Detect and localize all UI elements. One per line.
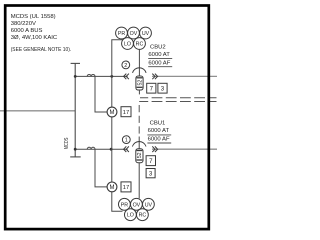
svg-text:6000 AT: 6000 AT (148, 52, 170, 58)
svg-text:M: M (110, 110, 115, 116)
svg-text:6000 AT: 6000 AT (148, 128, 170, 134)
svg-text:OV: OV (133, 202, 141, 208)
svg-text:CBU1: CBU1 (150, 120, 166, 126)
svg-text:2: 2 (124, 63, 127, 69)
svg-text:LO: LO (127, 213, 134, 219)
svg-text:1: 1 (125, 138, 128, 144)
svg-text:PR: PR (118, 31, 126, 37)
svg-text:CBU2: CBU2 (150, 44, 166, 50)
svg-text:52: 52 (137, 80, 143, 86)
svg-text:17: 17 (123, 185, 129, 191)
svg-text:OV: OV (130, 31, 138, 37)
svg-text:3Ø, 4W,100 KAIC: 3Ø, 4W,100 KAIC (11, 35, 58, 41)
svg-text:17: 17 (123, 110, 129, 116)
svg-text:(SEE GENERAL NOTE 10).: (SEE GENERAL NOTE 10). (11, 47, 72, 53)
svg-text:MCDS (UL 1558): MCDS (UL 1558) (11, 14, 56, 20)
svg-text:M: M (110, 185, 115, 191)
svg-text:UV: UV (142, 31, 150, 37)
svg-text:6000 AF: 6000 AF (148, 60, 170, 66)
svg-text:MCDS: MCDS (64, 138, 70, 150)
svg-text:380/220V: 380/220V (11, 21, 36, 27)
svg-text:6000 AF: 6000 AF (148, 137, 170, 143)
svg-text:PR: PR (121, 202, 129, 208)
svg-text:52: 52 (137, 152, 143, 158)
svg-text:UV: UV (145, 202, 153, 208)
svg-text:RC: RC (136, 42, 144, 48)
svg-text:RC: RC (139, 213, 147, 219)
svg-text:LO: LO (124, 42, 131, 48)
svg-text:6000 A BUS: 6000 A BUS (11, 28, 43, 34)
